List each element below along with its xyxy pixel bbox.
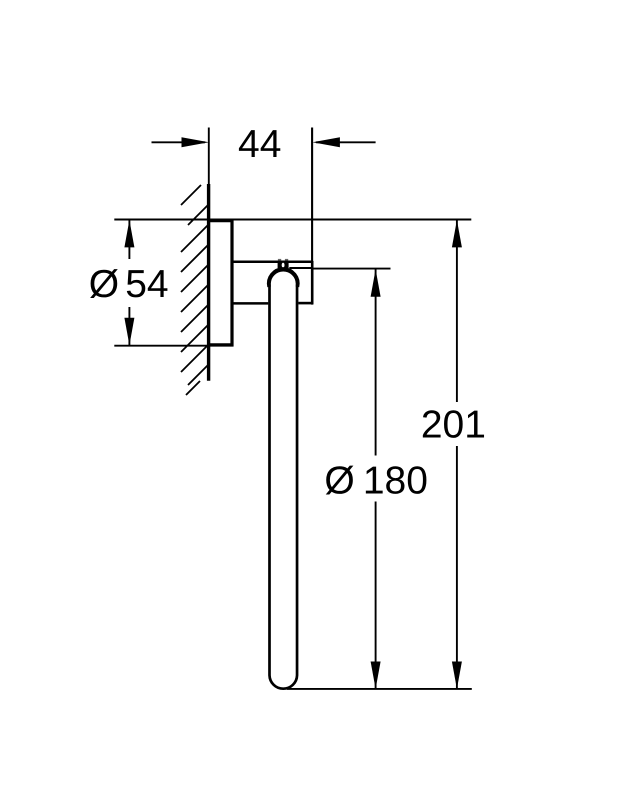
svg-text:54: 54 [125, 263, 168, 306]
dimension Ø54: line + arrows [124, 220, 134, 345]
dimension Ø180: line + arrows [371, 269, 381, 689]
holder arm slot bottom line [289, 267, 312, 269]
bottom extension line (201 / Ø180, ring bottom tangent) [287, 688, 472, 690]
wall line [207, 184, 210, 381]
holder arm bottom right segment [298, 302, 313, 305]
svg-text:Ø: Ø [89, 263, 119, 306]
towel ring outline (Ø180, side view) [270, 270, 298, 689]
dimension 201: line + arrows [452, 220, 462, 689]
dimension 44: left line + arrow [152, 137, 209, 147]
holder arm top edge [233, 261, 313, 264]
svg-text:44: 44 [238, 123, 281, 166]
wall hatching [181, 185, 208, 395]
svg-text:Ø: Ø [324, 460, 354, 503]
svg-text:201: 201 [421, 404, 486, 447]
ring hook thick dome [269, 269, 298, 287]
wall extension line upper thin part [208, 128, 210, 186]
svg-text:180: 180 [363, 460, 428, 503]
pivot pin block [278, 259, 289, 269]
Ø180 top extension line [311, 268, 391, 270]
bottom extension line (Ø54) [114, 345, 233, 347]
wall plate (rosette Ø54, side view) [209, 219, 233, 346]
holder arm bottom left segment [233, 302, 268, 305]
top extension line (201 / Ø54) [114, 219, 471, 221]
44 extension line right / arm tip edge [311, 128, 313, 305]
arm right edge (over extension line) [311, 261, 314, 304]
dimension 44: right line + arrow [313, 137, 376, 147]
